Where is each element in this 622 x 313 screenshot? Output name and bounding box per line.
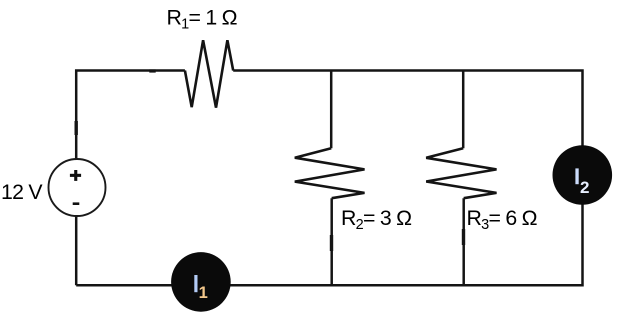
- svg-text:2: 2: [580, 178, 589, 197]
- svg-text:R2= 3 Ω: R2= 3 Ω: [341, 206, 411, 233]
- svg-text:12 V: 12 V: [1, 180, 43, 204]
- svg-text:R1= 1 Ω: R1= 1 Ω: [167, 6, 237, 33]
- svg-text:1: 1: [199, 284, 208, 302]
- svg-text:R3= 6 Ω: R3= 6 Ω: [467, 206, 537, 233]
